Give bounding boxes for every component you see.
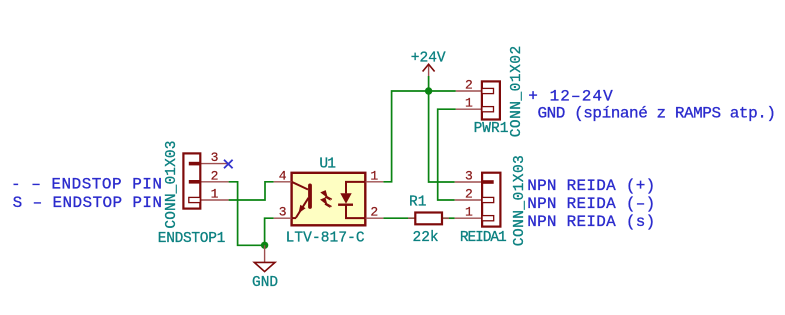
svg-text:S – ENDSTOP PIN: S – ENDSTOP PIN <box>13 194 162 212</box>
svg-text:1: 1 <box>370 168 378 183</box>
svg-text:2: 2 <box>465 78 473 93</box>
svg-text:LTV-817-C: LTV-817-C <box>286 231 365 247</box>
svg-text:PWR1: PWR1 <box>474 121 509 137</box>
svg-text:NPN REIDA (+): NPN REIDA (+) <box>527 177 655 195</box>
svg-text:1: 1 <box>211 187 219 202</box>
svg-text:GND (spínané z RAMPS atp.): GND (spínané z RAMPS atp.) <box>538 105 777 123</box>
svg-text:1: 1 <box>465 205 473 220</box>
svg-text:REIDA1: REIDA1 <box>460 230 507 246</box>
svg-text:CONN_01X02: CONN_01X02 <box>509 46 525 138</box>
svg-text:CONN_01X03: CONN_01X03 <box>164 141 180 229</box>
svg-text:2: 2 <box>465 187 473 202</box>
svg-text:22k: 22k <box>413 230 439 246</box>
svg-text:NPN REIDA (–): NPN REIDA (–) <box>527 195 655 213</box>
svg-text:1: 1 <box>465 96 473 111</box>
svg-text:- – ENDSTOP PIN: - – ENDSTOP PIN <box>11 176 162 194</box>
svg-text:+24V: +24V <box>411 50 446 66</box>
svg-text:NPN REIDA (s): NPN REIDA (s) <box>527 213 655 231</box>
svg-text:U1: U1 <box>319 157 336 173</box>
svg-text:ENDSTOP1: ENDSTOP1 <box>158 231 226 247</box>
svg-text:2: 2 <box>370 205 378 220</box>
svg-text:GND: GND <box>252 275 278 291</box>
svg-text:4: 4 <box>279 168 287 183</box>
svg-text:CONN_01X03: CONN_01X03 <box>512 155 528 246</box>
svg-text:3: 3 <box>465 169 473 184</box>
svg-text:+ 12–24V: + 12–24V <box>528 87 613 105</box>
svg-text:3: 3 <box>279 205 287 220</box>
svg-text:R1: R1 <box>409 195 426 211</box>
svg-text:2: 2 <box>211 168 219 183</box>
svg-text:3: 3 <box>211 150 219 165</box>
